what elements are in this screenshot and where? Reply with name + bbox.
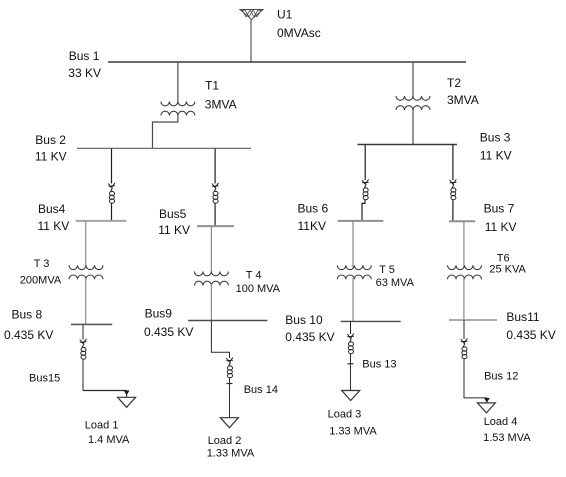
wire T4 to Bus9: [210, 284, 212, 321]
load Load 1 triangle: [118, 397, 136, 407]
wire cable A to Bus4: [111, 204, 113, 221]
svg-text:25 KVA: 25 KVA: [489, 264, 526, 276]
svg-text:3MVA: 3MVA: [447, 93, 479, 107]
svg-text:Bus 10: Bus 10: [285, 313, 323, 327]
load Load 4 arrow: [484, 398, 490, 403]
svg-text:Load 1: Load 1: [85, 419, 119, 431]
svg-text:0.435 KV: 0.435 KV: [506, 328, 555, 342]
svg-text:Bus 3: Bus 3: [480, 131, 511, 145]
svg-text:Bus11: Bus11: [506, 310, 539, 324]
svg-text:Bus 2: Bus 2: [35, 133, 66, 147]
svg-text:T2: T2: [447, 76, 461, 90]
load Load 2 triangle: [220, 418, 238, 428]
svg-text:11 KV: 11 KV: [38, 219, 70, 233]
wire Load 1 stem: [126, 391, 128, 398]
wire Bus 2 to cable A: [111, 148, 113, 183]
node Bus 14 tick: [227, 383, 233, 385]
svg-text:11 KV: 11 KV: [35, 150, 67, 164]
wire cable D to Bus 7: [452, 200, 454, 221]
svg-text:Load 3: Load 3: [328, 409, 362, 421]
transformer T1: [161, 102, 195, 116]
wire T2 to Bus 3: [412, 109, 414, 145]
wire Bus5 to T4: [210, 226, 212, 273]
transformer T5: [337, 265, 371, 279]
svg-text:Bus 7: Bus 7: [484, 202, 515, 216]
wire Bus1 to T1: [177, 62, 179, 104]
wire Bus9 jog to cable F: [211, 321, 229, 359]
svg-text:Bus4: Bus4: [38, 202, 66, 216]
svg-text:0MVAsc: 0MVAsc: [277, 26, 321, 40]
svg-text:T1: T1: [205, 79, 219, 93]
wire Bus 8 to cable E: [82, 324, 84, 339]
svg-text:100 MVA: 100 MVA: [236, 283, 281, 295]
bus Bus 8: [71, 323, 112, 325]
cable feeder F (Bus9 to Bus 14): [226, 357, 233, 377]
load Load 3 triangle: [342, 391, 360, 401]
svg-text:Bus 1: Bus 1: [69, 49, 100, 63]
bus Bus4: [76, 220, 127, 222]
svg-text:3MVA: 3MVA: [205, 97, 237, 111]
bus Bus5: [197, 225, 234, 227]
wire Bus 2 to cable B: [214, 148, 216, 183]
svg-text:33 KV: 33 KV: [68, 66, 101, 80]
svg-text:11 KV: 11 KV: [480, 149, 512, 163]
transformer T2: [396, 96, 430, 110]
svg-text:Bus 14: Bus 14: [244, 384, 278, 396]
wire Bus 3 to cable D: [452, 145, 454, 181]
svg-text:0.435 KV: 0.435 KV: [285, 330, 334, 344]
svg-text:Bus 6: Bus 6: [298, 202, 329, 216]
wire Bus1 to T2: [412, 62, 414, 98]
svg-text:200MVA: 200MVA: [20, 275, 62, 287]
svg-text:1.33 MVA: 1.33 MVA: [207, 448, 255, 460]
svg-text:11 KV: 11 KV: [158, 223, 190, 237]
bus Bus9: [188, 320, 268, 322]
cable feeder C (Bus 3 to Bus 6): [362, 179, 369, 199]
wire Bus 7 to T6: [463, 221, 465, 267]
cable feeder D (Bus 3 to Bus 7): [450, 179, 457, 199]
bus Bus11: [449, 319, 497, 321]
svg-text:Load 2: Load 2: [208, 435, 242, 447]
svg-text:1.53 MVA: 1.53 MVA: [483, 432, 531, 444]
svg-text:Bus 12: Bus 12: [484, 370, 518, 382]
load Load 1 arrow: [124, 391, 130, 396]
svg-text:1.4 MVA: 1.4 MVA: [88, 434, 130, 446]
svg-text:Load 4: Load 4: [484, 416, 518, 428]
svg-text:U1: U1: [277, 7, 293, 21]
svg-text:0.435 KV: 0.435 KV: [144, 325, 193, 339]
svg-text:T 3: T 3: [34, 258, 50, 270]
bus Bus 2: [77, 147, 251, 149]
svg-text:Bus 8: Bus 8: [12, 308, 43, 322]
svg-text:Bus15: Bus15: [29, 373, 60, 385]
svg-text:Bus5: Bus5: [159, 207, 187, 221]
wire cable H down jog to Load 4: [464, 359, 487, 398]
bus Bus 7: [449, 220, 475, 222]
cable feeder E (Bus 8 to Bus15): [80, 339, 87, 359]
wire U1 stem: [250, 20, 252, 63]
transformer T6: [448, 265, 482, 279]
transformer T4: [194, 272, 228, 286]
wire Bus 10 to cable G: [350, 321, 352, 334]
bus Bus 3: [358, 144, 458, 146]
node Bus 13 tick: [348, 363, 354, 365]
wire Bus11 to cable H: [463, 320, 465, 339]
svg-text:Bus9: Bus9: [145, 307, 173, 321]
svg-text:T 5: T 5: [379, 264, 395, 276]
wire Bus4 to T3: [85, 221, 87, 268]
wire cable C jog to Bus 6: [362, 200, 365, 221]
svg-text:1.33 MVA: 1.33 MVA: [329, 426, 377, 438]
bus Bus 6: [338, 220, 384, 222]
svg-text:63 MVA: 63 MVA: [376, 277, 415, 289]
wire cable B to Bus5: [214, 204, 216, 227]
wire Bus15 horizontal to Load 1: [83, 390, 127, 392]
wire T6 to Bus11: [463, 278, 465, 320]
utility U1: [240, 10, 263, 20]
cable feeder G (Bus 10 to Bus 13): [347, 333, 354, 353]
wire T1 to Bus 2 jog: [153, 114, 178, 148]
wire cable G down: [350, 354, 352, 391]
bus Bus 1: [108, 61, 466, 63]
wire Bus 3 to cable C: [364, 145, 366, 181]
cable feeder A (Bus 2 to Bus4): [108, 183, 115, 203]
bus Bus 10: [341, 320, 401, 322]
wire Bus 6 to T5: [352, 221, 354, 268]
svg-text:Bus 13: Bus 13: [362, 359, 396, 371]
wire T3 to Bus 8: [85, 278, 87, 325]
svg-text:11KV: 11KV: [298, 219, 326, 233]
wire cable E down: [82, 360, 84, 391]
wire Load 4 stem: [486, 398, 488, 403]
wire cable F down: [229, 378, 231, 418]
wire T5 to Bus 10: [352, 278, 354, 322]
svg-text:T 4: T 4: [246, 269, 262, 281]
cable feeder B (Bus 2 to Bus5): [212, 183, 219, 203]
svg-text:11 KV: 11 KV: [485, 220, 517, 234]
load Load 4 triangle: [477, 403, 495, 413]
cable feeder H (Bus11 to Bus 12): [461, 338, 468, 358]
transformer T3: [69, 265, 103, 279]
svg-text:0.435 KV: 0.435 KV: [4, 328, 53, 342]
